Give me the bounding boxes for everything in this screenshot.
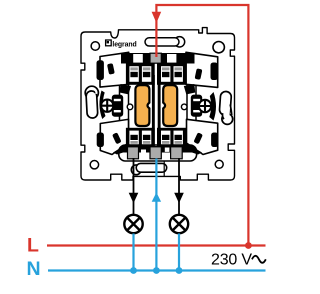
claw pill bar top-right bbox=[211, 63, 218, 81]
terminal block top-right bbox=[158, 64, 187, 85]
svg-text:legrand: legrand bbox=[112, 41, 136, 48]
terminal entry tab right (white) bbox=[167, 54, 176, 63]
claw flap slot top-right bbox=[195, 68, 203, 80]
claw flap bottom-right bbox=[187, 119, 218, 154]
claw pill bar bottom-right bbox=[211, 133, 218, 148]
rocker actuator left lobe (orange) bbox=[135, 85, 149, 126]
claw flap slot bottom-left bbox=[112, 132, 122, 144]
claw lever left bbox=[85, 86, 98, 99]
output terminal 1 (gray) bbox=[128, 147, 139, 159]
wire: lamp1 switched phase (black) bbox=[133, 158, 135, 215]
claw flap slot bottom-right bbox=[193, 132, 203, 144]
claw pill bar top-left bbox=[97, 60, 104, 80]
svg-text:L: L bbox=[27, 235, 39, 257]
plate seam below tray bbox=[163, 161, 165, 176]
plate hole bottom-right bbox=[215, 160, 223, 168]
screw housing left bbox=[112, 95, 123, 117]
rail hole left bbox=[127, 104, 133, 110]
lamp E1 bbox=[124, 215, 142, 233]
plate hole bottom-left bbox=[90, 161, 98, 169]
switch S1: Legrand support frame plate bbox=[81, 28, 235, 180]
claw pill bar bottom-left bbox=[97, 133, 104, 148]
claw corner wedge bottom-right bbox=[186, 144, 202, 155]
output terminal 2 (gray) bbox=[171, 147, 183, 159]
screw housing right bbox=[191, 95, 202, 117]
mechanism bottom tray bbox=[119, 145, 197, 161]
terminal block top-left bbox=[126, 64, 154, 85]
terminal block bottom-left bbox=[126, 128, 154, 147]
terminal block bottom bar bbox=[121, 146, 195, 153]
claw flap slot top-left bbox=[107, 63, 115, 75]
terminal block top bar bbox=[121, 53, 195, 64]
wire: N line bbox=[48, 269, 266, 271]
svg-text:N: N bbox=[27, 258, 41, 280]
wire: lamp1 to N (blue) bbox=[132, 234, 134, 271]
claw lever right bbox=[222, 114, 233, 125]
claw wedge right bbox=[209, 92, 216, 121]
output terminal N (gray) bbox=[150, 147, 161, 159]
arrow: red feed direction (down) bbox=[152, 12, 162, 23]
rocker actuator right lobe (orange) bbox=[163, 85, 177, 126]
white squares between stubs bbox=[165, 148, 170, 152]
wire: neutral return to switch (blue) bbox=[155, 159, 157, 271]
mechanism side rail left bbox=[120, 56, 129, 151]
svg-text:230 V: 230 V bbox=[211, 251, 252, 268]
wire: lamp2 to N (blue) bbox=[178, 234, 180, 271]
wire: red feed from top into switch terminal bbox=[156, 5, 248, 246]
sine symbol bbox=[252, 256, 266, 263]
fixing screw right bbox=[198, 99, 212, 113]
terminal block bottom-right bbox=[158, 128, 187, 147]
junction: L to feed bbox=[245, 242, 252, 249]
junction: lamp2 on N bbox=[176, 267, 183, 274]
rail hole right bbox=[181, 104, 187, 110]
terminal L input (gray, wire entry) bbox=[150, 53, 161, 63]
mechanism side rail right bbox=[187, 56, 196, 151]
claw flap top-right bbox=[186, 52, 218, 87]
wire: L line bbox=[47, 244, 266, 246]
lamp E2 bbox=[170, 215, 188, 233]
claw corner wedge top-right bbox=[184, 84, 196, 94]
claw wedge left bbox=[99, 91, 105, 120]
plate hole top-left bbox=[91, 42, 99, 50]
arrow: lamp2 feed direction (down) bbox=[174, 193, 184, 204]
wire: lamp2 switched phase (black) bbox=[178, 158, 180, 215]
junction: neutral on N bbox=[153, 267, 160, 274]
claw corner wedge bottom-left bbox=[113, 144, 129, 155]
plate bottom slot bbox=[131, 163, 166, 174]
arrow: lamp1 feed direction (down) bbox=[129, 193, 139, 204]
junction: lamp1 on N bbox=[130, 267, 137, 274]
claw flap bottom-left bbox=[100, 119, 128, 154]
claw corner wedge top-left bbox=[120, 84, 132, 94]
rocker center divider bbox=[152, 75, 155, 151]
arrow: neutral direction (up) bbox=[152, 192, 161, 201]
plate top keyhole slot bbox=[145, 37, 185, 47]
plate hole top-right bbox=[213, 42, 224, 53]
terminal entry tab left (white) bbox=[133, 54, 143, 63]
fixing screw left bbox=[100, 99, 114, 113]
claw flap top-left bbox=[100, 52, 129, 87]
legrand logo mark bbox=[106, 40, 112, 46]
